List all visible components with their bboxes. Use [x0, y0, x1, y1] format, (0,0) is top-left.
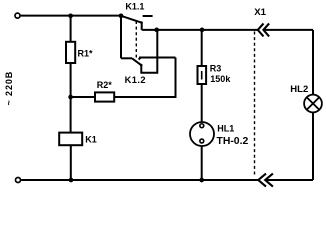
lamp HL1 top electrode [200, 124, 204, 128]
lamp HL2 cross stroke 2 [307, 97, 320, 110]
wire K1.1 lead down [141, 23, 143, 30]
lamp HL1 bottom electrode [200, 139, 204, 143]
wire K1.2 lower lead [141, 30, 157, 73]
resistor R3 inner mark [201, 71, 203, 80]
wire bottom right [265, 179, 313, 181]
connector X1 bottom chevron 1 [258, 174, 266, 187]
svg-text:HL2: HL2 [290, 84, 308, 95]
wire top horizontal [21, 15, 121, 17]
svg-text:K1: K1 [85, 134, 97, 144]
node E junction dot [200, 28, 205, 33]
wire K1.2 common vertical [120, 16, 122, 59]
contact K1.2 arm [132, 58, 141, 65]
wire HL2 top lead [312, 30, 314, 95]
svg-text:K1.1: K1.1 [125, 1, 144, 11]
node G junction dot [199, 178, 204, 183]
wire HL2 bottom lead [312, 112, 314, 180]
svg-text:HL1: HL1 [217, 124, 234, 134]
wire R2 right lead to riser [114, 58, 175, 98]
contact K1.2 fixed seat tick [139, 58, 141, 60]
svg-text:~ 220B: ~ 220B [4, 71, 14, 106]
wire K1.2 common horizontal [121, 57, 132, 59]
node C junction dot [68, 95, 73, 100]
wire R3 bottom lead [201, 84, 203, 124]
connector X1 dashed line [254, 32, 256, 176]
contact K1.2 arm tip [140, 64, 143, 67]
lamp HL2 cross stroke 1 [307, 97, 320, 110]
wire R1 top lead [70, 16, 72, 42]
svg-text:K1.2: K1.2 [125, 75, 146, 85]
node D junction dot [154, 28, 159, 33]
node F junction dot [69, 178, 74, 183]
wire K1 bottom lead [70, 145, 72, 180]
svg-text:TH-0.2: TH-0.2 [217, 136, 249, 147]
terminal top-left [15, 13, 20, 18]
lamp HL2 [304, 95, 322, 113]
contact K1.1 open stub [143, 15, 153, 17]
svg-text:R1*: R1* [78, 49, 94, 59]
connector X1 top chevron 1 [258, 24, 264, 37]
resistor R2 [95, 92, 114, 101]
connector X1 bottom chevron 2 [265, 174, 273, 187]
resistor R3 [198, 66, 207, 84]
contact K1.1 arm [121, 16, 142, 23]
wire R2 left lead [71, 96, 95, 98]
wire R3 top lead [201, 30, 203, 66]
lamp HL1 neon bulb [190, 122, 214, 146]
wire after top chevron [263, 29, 313, 31]
mechanical linkage dashed [135, 21, 137, 58]
connector X1 top chevron 2 [263, 24, 269, 37]
node B junction dot [119, 13, 124, 18]
node A junction dot [68, 13, 73, 18]
svg-text:R3: R3 [210, 64, 222, 74]
wire K1.2 fixed line to riser [139, 57, 176, 59]
relay coil K1 [59, 133, 82, 146]
wire R1 bottom lead [70, 63, 72, 133]
wire top-right horizontal [142, 29, 258, 31]
wire HL1 bottom lead [201, 146, 203, 180]
svg-text:150k: 150k [210, 74, 231, 84]
resistor R1 [66, 42, 75, 63]
wire bottom left [21, 179, 258, 181]
svg-text:X1: X1 [254, 7, 266, 18]
contact K1.1 arm tip [140, 21, 143, 24]
terminal bottom-left [16, 178, 21, 183]
svg-text:R2*: R2* [97, 80, 113, 90]
